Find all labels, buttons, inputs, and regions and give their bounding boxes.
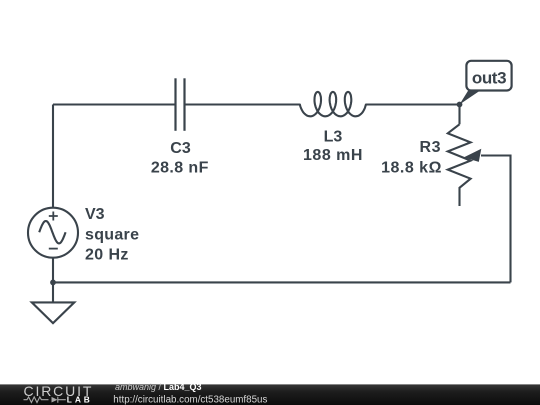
svg-text:square: square [85,227,139,244]
svg-text:20 Hz: 20 Hz [85,247,129,264]
wire [53,103,176,105]
labels for R3 [381,139,442,176]
wire [185,103,300,105]
svg-text:28.8 nF: 28.8 nF [151,160,209,177]
wiper arrow R3 [464,149,482,162]
svg-text:C3: C3 [170,140,191,157]
labels for V3 [85,206,139,264]
wire [52,257,54,302]
svg-text:18.8 kΩ: 18.8 kΩ [381,160,442,177]
svg-text:ambwanig / Lab4_Q3: ambwanig / Lab4_Q3 [115,382,202,392]
svg-text:R3: R3 [420,139,442,156]
svg-text:188 mH: 188 mH [303,147,363,164]
footer text [113,382,267,405]
capacitor C3 [176,78,185,131]
wire [52,105,54,209]
inductor L3 [300,92,366,116]
svg-text:http://circuitlab.com/ct538eum: http://circuitlab.com/ct538eumf85us [113,394,267,405]
node junction out3 [457,102,463,108]
CircuitLab logo [24,383,94,404]
node junction ground [50,280,56,286]
svg-text:LAB: LAB [67,394,93,404]
wire [481,156,511,283]
labels for L3 [303,129,363,165]
svg-text:out3: out3 [472,68,506,87]
svg-text:V3: V3 [85,206,105,223]
voltage source V3 [28,208,78,258]
net flag out3 [460,91,481,105]
ground [32,302,75,323]
wire [458,105,460,125]
svg-text:L3: L3 [324,129,343,146]
wire [366,103,460,105]
labels for C3 [151,140,209,177]
resistor R3 [448,124,471,206]
wire [53,281,511,283]
net flag out3 box and text [466,61,511,91]
